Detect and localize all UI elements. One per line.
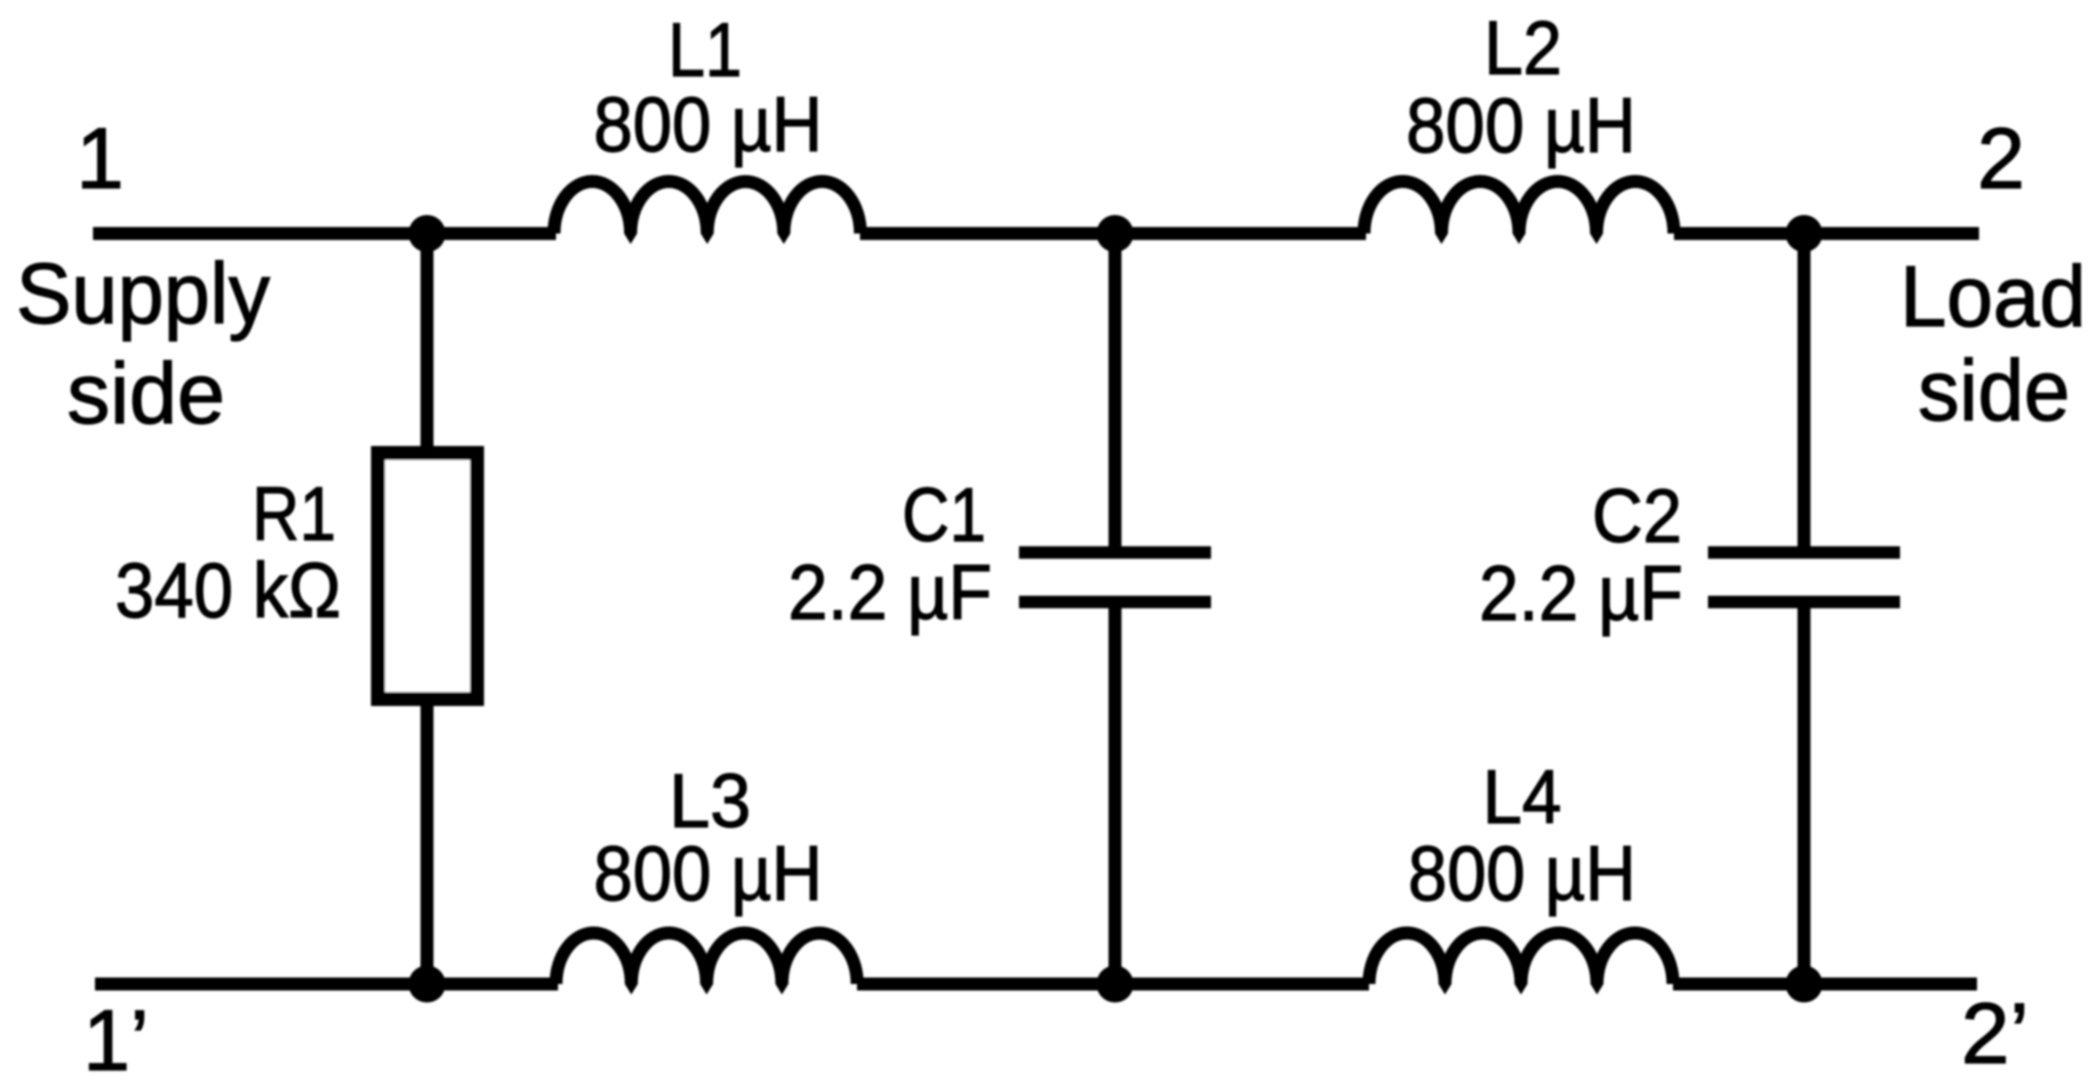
capacitor C1 [1019,553,1211,603]
node D (bottom-left junction) [409,966,446,1003]
svg-text:L2: L2 [1484,6,1562,91]
wire C2 bottom lead [1798,602,1811,984]
inductor L4 [1369,933,1673,995]
svg-text:Load: Load [1900,249,2086,345]
svg-text:2.2 µF: 2.2 µF [788,548,992,636]
svg-text:340 kΩ: 340 kΩ [115,546,341,634]
node C (top-right junction) [1786,215,1823,252]
wire bottom rail from L3 to node E [857,978,1369,991]
wire C1 top lead [1109,234,1122,553]
wire top rail from L1 to node B [860,227,1366,240]
svg-text:side: side [67,346,225,442]
svg-text:1: 1 [76,111,124,207]
svg-text:C2: C2 [1592,474,1682,559]
svg-text:2: 2 [1977,111,2025,207]
svg-text:C1: C1 [902,473,986,558]
wire top rail from L2 to terminal 2 [1674,227,1979,240]
svg-text:L4: L4 [1483,755,1562,840]
wire R1 bottom lead [421,699,434,984]
node A (top-left junction) [409,215,446,252]
node E (bottom-middle junction) [1097,966,1134,1003]
inductor L2 [1364,182,1674,245]
svg-text:800 µH: 800 µH [1406,81,1636,169]
resistor R1 [378,453,477,699]
capacitor C2 [1708,553,1900,603]
wire R1 top lead [421,234,434,454]
svg-text:R1: R1 [252,472,336,557]
node B (top-middle junction) [1097,215,1134,252]
wire C2 top lead [1798,234,1811,553]
inductor L3 [556,933,857,994]
wire bottom rail from L4 to terminal 2' [1673,978,1977,991]
wire top rail from terminal 1 to node A [93,227,556,240]
svg-text:Supply: Supply [16,246,270,342]
inductor L1 [554,182,860,245]
svg-text:side: side [1918,343,2070,439]
svg-text:800 µH: 800 µH [594,829,823,917]
svg-text:2.2 µF: 2.2 µF [1479,549,1683,637]
wire bottom rail from terminal 1' to node D [95,978,558,991]
svg-text:2’: 2’ [1961,986,2029,1082]
wire C1 bottom lead [1109,602,1122,984]
svg-text:1’: 1’ [83,993,149,1088]
node F (bottom-right junction) [1786,966,1823,1003]
svg-text:800 µH: 800 µH [1408,829,1636,917]
svg-text:800 µH: 800 µH [594,80,823,168]
